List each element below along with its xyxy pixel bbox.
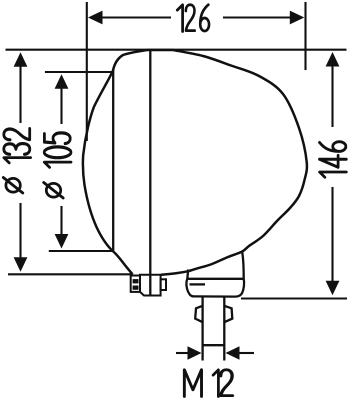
dia132 dim line upper segment <box>19 64 21 123</box>
clamp right tab <box>161 279 166 290</box>
M12 right arrow <box>226 346 240 359</box>
dia105 dim line lower segment <box>60 206 62 237</box>
bottom reference extension line <box>241 297 347 299</box>
dia132 top arrow <box>14 52 28 67</box>
dia105 top arrow <box>55 74 69 89</box>
stem end cross line <box>203 344 225 346</box>
housing back outline <box>161 50 307 275</box>
146 top arrow <box>326 52 340 67</box>
146 bottom arrow <box>326 281 340 296</box>
stem right wing <box>224 306 232 322</box>
clamp screw slot bars <box>133 279 139 283</box>
126 dimension line right segment <box>223 16 292 18</box>
pedestal neck left edge <box>186 270 189 279</box>
dim text dia 132 (rotated) <box>3 129 30 193</box>
lamp top tangent segment of outline <box>147 49 173 52</box>
146 dim line lower segment <box>331 187 333 283</box>
dia132 bottom extension line <box>8 273 133 275</box>
M12 dim line right segment <box>239 352 254 354</box>
126 right extension line <box>304 2 306 70</box>
collar top line <box>187 278 243 280</box>
dim text M 12 <box>184 370 232 397</box>
rim front face line <box>112 70 114 252</box>
dim text 126 <box>177 5 209 32</box>
stem left wing <box>195 306 202 322</box>
M12 dim line left segment <box>176 352 189 354</box>
dim text dia 105 (rotated) <box>44 133 71 198</box>
126 right arrow <box>290 11 305 25</box>
collar inner step line <box>190 283 206 285</box>
dia132 bottom arrow <box>14 257 28 272</box>
126 left arrow <box>88 11 103 25</box>
146 dim line upper segment <box>331 64 333 127</box>
dim text 146 (rotated) <box>320 142 347 178</box>
clamp screw head <box>131 276 140 292</box>
dia105 bottom extension line <box>49 250 114 252</box>
stem right line <box>223 297 225 361</box>
126 left extension line <box>86 2 88 141</box>
dia132 dim line lower segment <box>19 203 21 260</box>
dia105 dim line upper segment <box>60 86 62 124</box>
clamp body <box>140 275 161 296</box>
rim/housing seam line <box>149 50 151 296</box>
pedestal neck right edge <box>242 252 244 279</box>
M12 left arrow <box>188 346 202 359</box>
collar body <box>186 279 244 297</box>
lamp front outline: lens bulge and rim profile <box>83 50 147 274</box>
dia105 top extension line <box>45 71 113 73</box>
top tangent extension line <box>6 49 347 51</box>
dia105 bottom arrow <box>55 234 69 249</box>
stem left line <box>201 297 203 361</box>
126 dimension line left segment <box>100 16 171 18</box>
